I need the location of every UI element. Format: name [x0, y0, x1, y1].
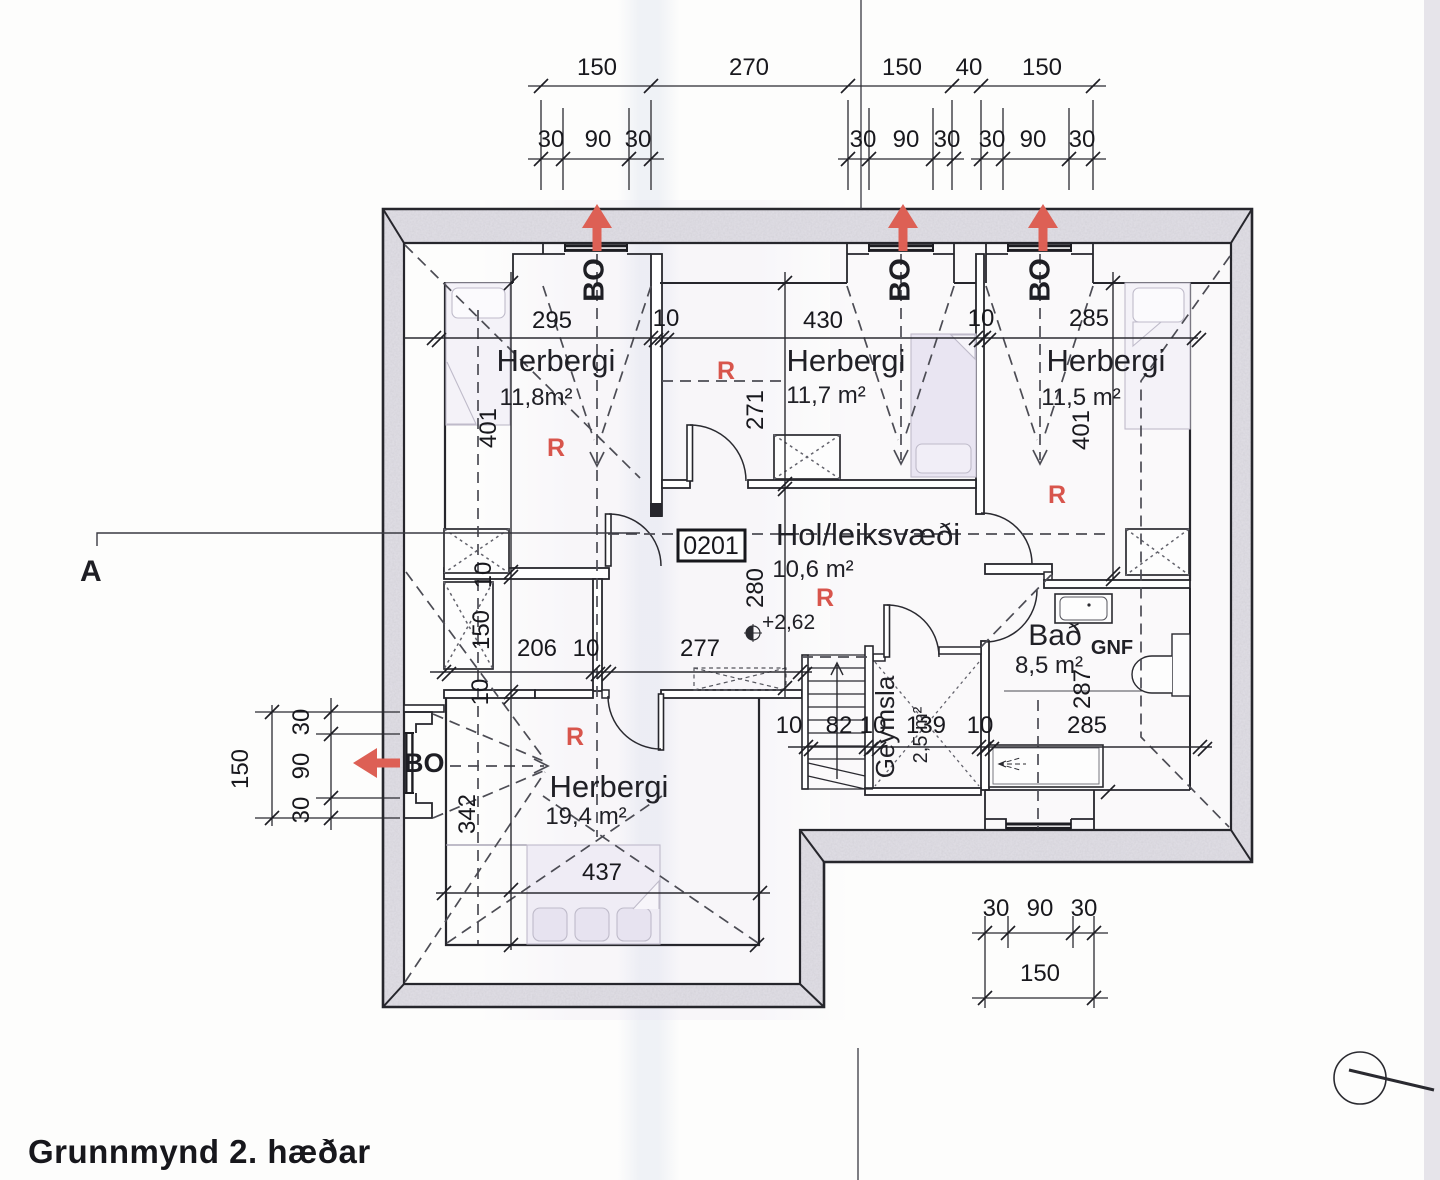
corner miter ext bottom-left [383, 984, 404, 1007]
section line vertical top [860, 0, 862, 209]
svg-text:Herbergi: Herbergi [497, 343, 616, 378]
knee wall line R2 north right [954, 282, 976, 284]
svg-text:401: 401 [475, 408, 502, 448]
svg-text:GNF: GNF [1091, 637, 1133, 659]
interior dim line y747 [788, 746, 1212, 748]
escape arrowhead room2 [894, 450, 908, 464]
scan tint band vertical blue-gray [618, 0, 680, 1180]
roof ridge extension vertical [596, 254, 598, 837]
knee wall lining R1 west [444, 283, 446, 568]
svg-text:10: 10 [470, 562, 497, 589]
labels y338 chain [532, 305, 1109, 334]
svg-text:+2,62: +2,62 [762, 611, 815, 634]
door room3 arc [981, 513, 1032, 564]
niche left window steps [404, 712, 432, 818]
svg-text:BO: BO [404, 748, 445, 778]
svg-text:90: 90 [1027, 895, 1054, 922]
svg-text:430: 430 [803, 307, 843, 334]
scan lavender wash right [830, 235, 1250, 865]
wall R2/R3 [976, 254, 984, 514]
wall R1 south with door [444, 568, 609, 579]
svg-text:30: 30 [538, 126, 565, 153]
geymsla dotted X [875, 662, 979, 786]
dashed roof lines [405, 245, 1230, 982]
door bedroom leaf [659, 694, 664, 750]
niche 1 step left [513, 254, 565, 283]
toilet [1132, 634, 1190, 696]
corner miter top-right [1231, 209, 1252, 243]
niche bottom bath window [985, 790, 1094, 830]
window centerline bath [1037, 700, 1039, 828]
svg-text:10: 10 [968, 305, 995, 332]
svg-text:30: 30 [850, 126, 877, 153]
escape path left window [450, 765, 544, 767]
niche 1 sill right [627, 253, 651, 255]
window W2 top room2 [869, 244, 933, 252]
knee wall line R1 north [444, 282, 513, 284]
corner miter step [800, 830, 824, 862]
door bedroom arc [608, 696, 661, 749]
top dimension chain 1 line [528, 86, 1106, 190]
inner wall outline [404, 243, 1231, 984]
window W3 top room3 [1008, 244, 1071, 252]
niche 2 jamb left [846, 243, 848, 283]
svg-text:150: 150 [882, 54, 922, 81]
wall R3 south [985, 564, 1052, 574]
niche 3 sill right [1071, 243, 1093, 283]
svg-text:150: 150 [1022, 54, 1062, 81]
svg-text:R: R [816, 584, 834, 612]
svg-text:277: 277 [680, 635, 720, 662]
shelf line left of big bed [446, 844, 527, 846]
svg-text:150: 150 [227, 749, 254, 789]
knee wall line R3 north [1093, 282, 1231, 284]
roof diag bath [981, 575, 1051, 647]
stairs treads [802, 655, 873, 789]
svg-text:Hol/leiksvæði: Hol/leiksvæði [776, 517, 960, 552]
door geymsla leaf [884, 605, 890, 657]
svg-text:206: 206 [517, 635, 557, 662]
svg-text:11,8m²: 11,8m² [500, 384, 573, 411]
section line A horizontal [97, 533, 640, 546]
svg-text:0201: 0201 [683, 532, 739, 560]
svg-text:150: 150 [468, 610, 495, 650]
niche 2 sill [847, 253, 954, 255]
svg-text:40: 40 [956, 54, 983, 81]
closet room2 dotted X [774, 435, 840, 479]
svg-text:295: 295 [532, 307, 572, 334]
corner miter bottom-right [1231, 830, 1252, 862]
svg-text:10: 10 [967, 712, 994, 739]
wall geymsla north stub [873, 654, 885, 661]
interior dim line y672 [430, 671, 812, 673]
cabinet hall dotted [694, 668, 786, 690]
wall corridor jog [602, 690, 609, 698]
svg-text:BO: BO [579, 258, 611, 302]
roof diag top-right + vertical + bottom-right [1141, 256, 1230, 827]
door room1 arc [609, 514, 661, 566]
thin line bath knee height [1004, 690, 1188, 692]
vertical dim line x511 [510, 272, 512, 950]
svg-text:30: 30 [1071, 895, 1098, 922]
bed room1 [446, 283, 510, 425]
svg-text:11,7 m²: 11,7 m² [786, 382, 866, 409]
svg-text:10: 10 [776, 712, 803, 739]
escape arrowhead left window [534, 759, 548, 773]
niche 2 jamb right [953, 243, 955, 283]
knee wall lining R3 east [1189, 283, 1191, 581]
BO arrow left window [353, 748, 400, 778]
svg-text:11,5 m²: 11,5 m² [1041, 384, 1121, 411]
svg-text:30: 30 [983, 895, 1010, 922]
sink bath [1055, 594, 1112, 623]
svg-text:A: A [80, 555, 102, 588]
wall corridor/hall [593, 579, 602, 691]
svg-text:Geymsla: Geymsla [870, 675, 900, 778]
scan gray strip right page edge [1424, 0, 1440, 1180]
svg-text:30: 30 [288, 797, 315, 824]
roof height line left vertical [477, 310, 479, 944]
escape path room3 [1039, 254, 1041, 460]
chain 2 lines [528, 158, 664, 160]
svg-text:342: 342 [454, 794, 481, 834]
svg-text:10: 10 [573, 635, 600, 662]
svg-text:271: 271 [742, 390, 769, 430]
niche 1 jamb left [542, 243, 544, 254]
svg-text:Herbergi: Herbergi [550, 769, 669, 804]
stairs up arrow [831, 663, 843, 779]
svg-text:Bað: Bað [1028, 619, 1081, 652]
closet room1 dotted X [444, 529, 509, 573]
svg-text:270: 270 [729, 54, 769, 81]
door geymsla arc [887, 605, 939, 657]
interior dim line y893 [436, 892, 770, 894]
svg-text:280: 280 [742, 568, 769, 608]
svg-text:BO: BO [1025, 258, 1057, 302]
closet room3 dotted X [1126, 529, 1189, 575]
svg-text:19,4 m²: 19,4 m² [545, 803, 626, 830]
dormer V room3 [986, 286, 1093, 440]
outer wall outline [383, 209, 1252, 1007]
svg-text:2,5 m²: 2,5 m² [910, 706, 932, 763]
knee wall line R2 north [660, 282, 847, 284]
svg-text:30: 30 [934, 126, 961, 153]
svg-text:150: 150 [1020, 960, 1060, 987]
wall stub left corridor [404, 705, 444, 712]
window W1 top room1 [565, 244, 627, 252]
wall R2 south left stub [662, 480, 690, 488]
svg-text:R: R [547, 434, 565, 462]
svg-text:30: 30 [979, 126, 1006, 153]
svg-text:R: R [1048, 481, 1066, 509]
BO arrow window2 [888, 204, 918, 251]
svg-text:82: 82 [826, 712, 853, 739]
door room2 arc [690, 425, 746, 481]
escape arrowhead room3 [1033, 450, 1047, 464]
wall jog R3/bath [1044, 572, 1052, 584]
wall bath north [1044, 580, 1190, 588]
svg-text:BO: BO [885, 258, 917, 302]
extension lines chain1 [540, 100, 542, 190]
section line vertical bottom [857, 1048, 859, 1180]
knee lining bath south [985, 789, 1190, 791]
stairs headroom dashed [802, 656, 873, 658]
roof diag bottom-left [405, 772, 545, 982]
wall stairs left stringer [802, 655, 808, 789]
svg-text:30: 30 [288, 709, 315, 736]
bed bedroom big [527, 845, 660, 944]
door room1 leaf [606, 514, 612, 566]
svg-text:90: 90 [893, 126, 920, 153]
svg-text:150: 150 [577, 54, 617, 81]
svg-text:10: 10 [467, 679, 494, 706]
roof hip bedroom left [447, 796, 662, 943]
wall stairs right / geymsla west [865, 646, 873, 788]
outer wall band L-shape [383, 209, 1252, 1007]
svg-text:10: 10 [653, 305, 680, 332]
vertical dim line x785 [784, 272, 786, 697]
svg-text:90: 90 [288, 753, 315, 780]
svg-text:8,5 m²: 8,5 m² [1015, 652, 1083, 679]
escape path room2 [900, 254, 902, 460]
ticks y338 [427, 331, 1206, 347]
wall bath west [981, 641, 989, 790]
door frame block R1 [650, 503, 662, 517]
bed room2 [911, 334, 976, 477]
svg-text:Herbergi: Herbergi [787, 343, 906, 378]
BO arrow window1 [582, 204, 612, 251]
dormer V room1 [543, 286, 651, 440]
niche 3 jamb left [986, 243, 1008, 283]
window W-left [405, 733, 415, 793]
door bath arc [985, 590, 1037, 642]
section marker circle bottom right [1334, 1052, 1386, 1104]
svg-text:437: 437 [582, 859, 622, 886]
wall geymsla south [865, 788, 981, 795]
closet corridor dotted X [444, 582, 493, 669]
svg-text:90: 90 [1020, 126, 1047, 153]
escape arrowhead room1 [590, 452, 604, 466]
svg-text:30: 30 [625, 126, 652, 153]
ticks top chain2 [534, 152, 548, 166]
interior dim line y338 [404, 337, 1198, 339]
wall bedroom north east / hall south [661, 690, 802, 698]
roof hip bedroom right [543, 796, 758, 943]
svg-text:30: 30 [1069, 126, 1096, 153]
BO arrow window3 [1028, 204, 1058, 251]
scan lavender wash left [480, 200, 850, 1020]
corner miter top-left [383, 209, 404, 243]
level mark +2,62 [744, 611, 815, 642]
roof dashed room2 level [662, 380, 783, 382]
window W-bottom [1006, 824, 1071, 828]
ticks top chain1 [534, 79, 1100, 166]
wall R2 south right [748, 480, 976, 488]
wall R1/R2 [651, 254, 662, 516]
left dimension chains [255, 698, 400, 830]
bed room3 [1125, 283, 1190, 429]
vertical dim line x1113 [1112, 272, 1114, 580]
roof ridge hall horizontal dashed [608, 533, 1108, 535]
labels top chain1 [538, 54, 1096, 153]
svg-text:10,6 m²: 10,6 m² [772, 556, 853, 583]
wall bedroom north mid [535, 690, 593, 698]
bottom dimension chains [972, 916, 1108, 1008]
room number box 0201 [678, 530, 745, 561]
knee lining bedroom [446, 698, 759, 945]
shower tray [989, 745, 1103, 787]
svg-text:90: 90 [585, 126, 612, 153]
roof diag top-left [405, 245, 640, 478]
svg-text:Herbergi: Herbergi [1047, 343, 1166, 378]
svg-text:285: 285 [1069, 305, 1109, 332]
svg-text:R: R [717, 357, 735, 385]
svg-text:R: R [566, 723, 584, 751]
knee lining bath east [1189, 588, 1191, 790]
svg-text:401: 401 [1068, 410, 1095, 450]
door room2 leaf [687, 425, 693, 481]
dormer V left window [433, 714, 548, 818]
dormer V room2 [847, 286, 954, 440]
svg-text:Grunnmynd 2. hæðar: Grunnmynd 2. hæðar [28, 1133, 371, 1170]
wall bedroom north west [444, 690, 535, 698]
roof diag corridor [406, 572, 545, 760]
section marker diagonal [1349, 1070, 1434, 1090]
svg-text:285: 285 [1067, 712, 1107, 739]
wall geymsla north jog [939, 647, 981, 654]
corner miter ext bottom-right [800, 984, 824, 1007]
wall grain overlay [383, 209, 1252, 1007]
